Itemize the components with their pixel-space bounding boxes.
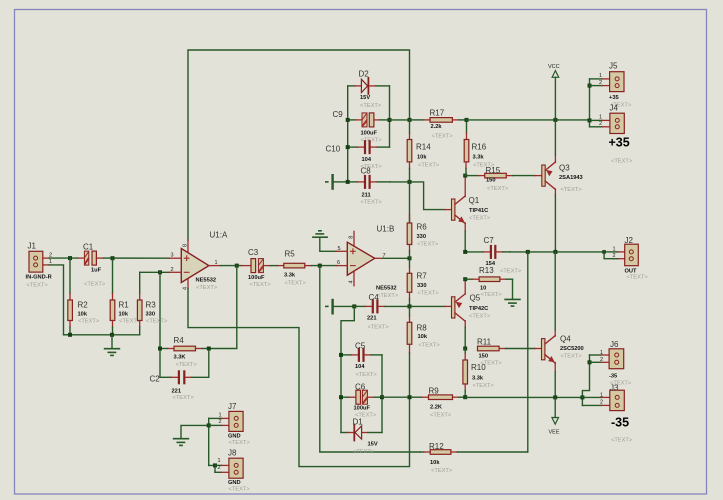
resistor R10 <box>463 349 494 398</box>
svg-text:15V: 15V <box>368 442 378 448</box>
wire C6 row to R9 node <box>382 396 410 398</box>
node junction C9 left <box>346 118 350 122</box>
ground terminal at C8 row <box>326 175 348 188</box>
svg-text:Q1: Q1 <box>469 196 480 205</box>
svg-text:J4: J4 <box>610 104 619 113</box>
svg-text:C2: C2 <box>150 375 161 384</box>
node junction top rail / R17 <box>408 118 412 122</box>
power terminal VCC <box>548 64 560 120</box>
resistor R8 <box>407 306 440 397</box>
svg-text:R4: R4 <box>174 336 185 345</box>
svg-text:<TEXT>: <TEXT> <box>84 282 106 288</box>
connector J4 <box>590 104 633 165</box>
wire J7 feed vertical <box>208 418 210 465</box>
resistor R6 <box>407 214 439 258</box>
connector J8 <box>215 449 250 493</box>
svg-text:2: 2 <box>599 80 602 86</box>
svg-text:-35: -35 <box>609 374 617 380</box>
svg-text:10k: 10k <box>418 334 428 340</box>
svg-text:<TEXT>: <TEXT> <box>173 395 195 401</box>
wire J1 pin2 to C1 <box>49 257 78 259</box>
svg-text:R7: R7 <box>417 272 428 281</box>
capacitor C6 <box>341 383 382 419</box>
svg-text:<TEXT>: <TEXT> <box>377 293 399 299</box>
svg-text:<TEXT>: <TEXT> <box>418 291 440 297</box>
svg-text:<TEXT>: <TEXT> <box>611 438 633 444</box>
svg-text:<TEXT>: <TEXT> <box>361 200 383 206</box>
ground terminal at C4 row <box>326 300 355 313</box>
capacitor C4 <box>354 293 409 331</box>
wire C5/C6/D1 right rail <box>381 355 383 433</box>
svg-text:+35: +35 <box>609 136 630 150</box>
svg-text:<TEXT>: <TEXT> <box>78 318 100 324</box>
svg-text:<TEXT>: <TEXT> <box>469 216 491 222</box>
svg-text:R17: R17 <box>430 109 445 118</box>
node junction C6 left <box>339 395 343 399</box>
capacitor C2 <box>150 351 209 402</box>
svg-text:<TEXT>: <TEXT> <box>473 383 495 389</box>
svg-text:<TEXT>: <TEXT> <box>611 159 633 165</box>
svg-text:2: 2 <box>171 267 174 273</box>
svg-text:2: 2 <box>219 419 222 425</box>
svg-text:J6: J6 <box>610 340 619 349</box>
wire output feedback down to R4 right <box>209 266 237 349</box>
node junction J7 pin2 <box>207 423 211 427</box>
capacitor C10 <box>326 140 390 170</box>
wire D2 left rail down to C8 row <box>347 86 349 182</box>
ground under R13 <box>505 299 520 306</box>
wire D2 right rail down to C10 row <box>389 86 391 147</box>
svg-text:221: 221 <box>367 316 377 322</box>
svg-text:10k: 10k <box>417 155 427 161</box>
svg-text:<TEXT>: <TEXT> <box>469 314 491 320</box>
wire R9 row to Q4 emitter and J3 <box>465 396 582 398</box>
svg-text:1: 1 <box>600 350 603 356</box>
svg-text:-35: -35 <box>611 416 629 430</box>
node junction Q5 collector / R10 / R11 <box>463 347 467 351</box>
resistor R9 <box>410 387 466 419</box>
resistor R4 <box>160 336 209 368</box>
node junction R14 bottom / C8 wire <box>408 180 412 184</box>
node junction R9/C6 column <box>408 395 412 399</box>
svg-text:330: 330 <box>417 283 427 289</box>
svg-text:211: 211 <box>362 193 371 199</box>
svg-text:C7: C7 <box>484 236 495 245</box>
svg-text:3.3k: 3.3k <box>472 376 484 382</box>
svg-text:<TEXT>: <TEXT> <box>432 134 454 140</box>
svg-text:<TEXT>: <TEXT> <box>419 343 441 349</box>
svg-text:J2: J2 <box>625 236 634 245</box>
svg-text:<TEXT>: <TEXT> <box>176 362 198 368</box>
wire R14 node down to R6 <box>409 182 411 223</box>
svg-text:4: 4 <box>349 280 355 283</box>
svg-text:GND: GND <box>228 434 241 440</box>
svg-text:+35: +35 <box>609 95 619 101</box>
node junction C6 right <box>380 395 384 399</box>
svg-text:<TEXT>: <TEXT> <box>487 186 509 192</box>
capacitor C9 <box>333 110 390 144</box>
wire feedback node down to R4/C2 <box>159 272 161 377</box>
node junction R4 right <box>207 347 211 351</box>
node junction J6 pin2 <box>588 360 592 364</box>
node junction R4 left <box>158 347 162 351</box>
diode D1 <box>341 418 382 456</box>
svg-text:<TEXT>: <TEXT> <box>417 242 439 248</box>
capacitor C3 <box>241 248 283 288</box>
svg-text:2.2K: 2.2K <box>430 405 443 411</box>
node junction top rail / R16 <box>465 118 469 122</box>
resistor R7 <box>407 258 439 306</box>
svg-text:C8: C8 <box>361 167 372 176</box>
svg-text:C1: C1 <box>83 243 94 252</box>
wire C7 to output column <box>510 251 604 253</box>
connector J3 <box>582 384 632 444</box>
wire R12 column vertical <box>527 252 529 452</box>
svg-text:<TEXT>: <TEXT> <box>360 103 382 109</box>
svg-text:3.3k: 3.3k <box>473 155 485 161</box>
svg-text:2: 2 <box>613 253 616 259</box>
wire C9 right to R17 node <box>390 119 410 121</box>
svg-text:R16: R16 <box>472 143 487 152</box>
svg-text:8: 8 <box>349 236 355 239</box>
node junction C4 left / V- branch <box>352 304 356 308</box>
svg-text:R3: R3 <box>146 301 157 310</box>
svg-text:R6: R6 <box>417 223 428 232</box>
wire J7-J8 jog <box>209 465 215 472</box>
resistor R1 <box>110 294 141 335</box>
capacitor C8 <box>348 167 390 206</box>
resistor R11 <box>477 338 542 367</box>
node junction J5 pins <box>588 84 592 88</box>
svg-text:10: 10 <box>480 286 486 292</box>
svg-text:8: 8 <box>183 244 189 247</box>
svg-text:<TEXT>: <TEXT> <box>196 285 218 291</box>
node junction VCC rail <box>553 118 557 122</box>
svg-text:1: 1 <box>600 393 603 399</box>
connector J7 <box>209 402 251 446</box>
wire C4 node to Q5 base <box>410 305 445 307</box>
svg-text:TIP42C: TIP42C <box>469 306 488 312</box>
svg-text:<TEXT>: <TEXT> <box>250 282 272 288</box>
svg-text:<TEXT>: <TEXT> <box>561 354 583 360</box>
svg-text:1: 1 <box>218 458 221 464</box>
svg-text:<TEXT>: <TEXT> <box>561 187 583 193</box>
svg-text:R13: R13 <box>479 266 494 275</box>
svg-text:100uF: 100uF <box>248 275 265 281</box>
ground at J7 <box>174 439 189 446</box>
svg-text:U1:A: U1:A <box>210 231 228 240</box>
svg-text:Q4: Q4 <box>560 335 571 344</box>
svg-text:1uF: 1uF <box>91 268 102 274</box>
svg-text:2: 2 <box>600 399 603 405</box>
svg-text:<TEXT>: <TEXT> <box>229 440 251 446</box>
svg-text:C9: C9 <box>333 110 344 119</box>
svg-text:D2: D2 <box>359 70 370 79</box>
svg-text:C5: C5 <box>355 342 366 351</box>
wire J2 feed <box>604 252 613 259</box>
resistor R2 <box>68 258 100 335</box>
wire U1:A output to C3 <box>221 265 242 267</box>
svg-text:Q5: Q5 <box>470 294 481 303</box>
svg-text:<TEXT>: <TEXT> <box>627 275 649 281</box>
node junction J4 pin1 / rail <box>588 118 592 122</box>
svg-text:104: 104 <box>362 157 372 163</box>
wire J5/J4 feed vertical <box>589 79 591 127</box>
wire U1:A pin4 to V- net <box>188 289 410 467</box>
svg-text:1: 1 <box>215 260 218 266</box>
svg-text:2SC5200: 2SC5200 <box>560 346 584 352</box>
svg-text:1: 1 <box>49 259 52 265</box>
resistor R15 <box>465 166 542 192</box>
wire J6 feed <box>582 355 589 405</box>
svg-text:<TEXT>: <TEXT> <box>27 283 49 289</box>
node junction pin2/feedback <box>158 270 162 274</box>
wire R1 top lead from pin3 row <box>112 258 114 293</box>
svg-text:221: 221 <box>172 389 182 395</box>
svg-text:<TEXT>: <TEXT> <box>500 269 522 275</box>
svg-text:1: 1 <box>599 73 602 79</box>
svg-text:J5: J5 <box>609 62 618 71</box>
transistor Q4 <box>542 252 584 398</box>
wire V- branch down to C5/C6/D1 rail <box>341 306 354 432</box>
svg-text:10k: 10k <box>430 460 440 466</box>
svg-text:IN-GND-R: IN-GND-R <box>26 275 52 281</box>
node junction J3 pin1 / rail <box>580 395 584 399</box>
node junction C1/R1 <box>111 256 115 260</box>
svg-text:<TEXT>: <TEXT> <box>356 372 378 378</box>
svg-text:<TEXT>: <TEXT> <box>368 325 390 331</box>
svg-text:J3: J3 <box>610 384 619 393</box>
node junction C7/R12 column <box>526 250 530 254</box>
svg-text:1: 1 <box>599 115 602 121</box>
capacitor C7 <box>465 236 510 267</box>
svg-text:R8: R8 <box>417 324 428 333</box>
connector J5 <box>590 62 632 109</box>
resistor R13 <box>465 266 522 299</box>
svg-text:2: 2 <box>600 357 603 363</box>
resistor R14 <box>407 120 440 182</box>
node junction Q1 collector / R16 / R15 <box>463 174 467 178</box>
node junction R1/rail <box>110 333 114 337</box>
power terminal VEE <box>549 397 560 435</box>
resistor R3 <box>137 294 167 335</box>
svg-text:R2: R2 <box>78 301 89 310</box>
svg-text:J1: J1 <box>28 242 37 251</box>
wire ground rail under R1/R2/R3 <box>64 334 140 336</box>
svg-text:<TEXT>: <TEXT> <box>146 318 168 324</box>
node junction output/feedback <box>235 264 239 268</box>
svg-text:<TEXT>: <TEXT> <box>430 413 452 419</box>
svg-text:150: 150 <box>486 178 496 184</box>
svg-text:U1:B: U1:B <box>377 225 395 234</box>
svg-text:3: 3 <box>171 253 174 259</box>
wire top rail R17 to J4 <box>467 119 590 121</box>
svg-text:C10: C10 <box>326 145 341 154</box>
node junction output column Q3/Q4 <box>553 250 557 254</box>
svg-text:GND: GND <box>228 480 241 486</box>
connector J6 <box>590 340 632 387</box>
node junction pin6/R12 <box>318 264 322 268</box>
svg-text:330: 330 <box>146 311 156 317</box>
node junction R2/rail <box>68 333 72 337</box>
svg-text:C6: C6 <box>355 383 366 392</box>
node junction R13 row <box>463 277 467 281</box>
svg-text:D1: D1 <box>353 418 364 427</box>
svg-text:100uF: 100uF <box>354 406 371 412</box>
resistor R12 <box>420 442 527 474</box>
svg-text:10k: 10k <box>78 311 88 317</box>
node junction C4/R7/R8/Q5 base <box>408 304 412 308</box>
svg-text:<TEXT>: <TEXT> <box>285 281 307 287</box>
ground terminal above U1:B pin5 (inverted) <box>313 231 327 237</box>
transistor Q5 <box>445 279 491 348</box>
diode D2 <box>348 70 390 110</box>
resistor R17 <box>410 109 467 140</box>
op-amp U1:B <box>337 225 399 300</box>
wire top rail from U1:A pin8 to D2 block column <box>188 50 410 240</box>
node junction C9 right <box>388 118 392 122</box>
svg-text:10k: 10k <box>119 311 129 317</box>
connector J1 <box>26 242 53 289</box>
wire C1 to U1:A pin3 <box>104 257 170 259</box>
wire U1:A pin2 row <box>140 271 170 273</box>
transistor Q3 <box>542 120 583 252</box>
svg-text:J8: J8 <box>228 449 237 458</box>
node junction J1/R2 <box>68 256 72 260</box>
ground under R1 <box>105 349 120 356</box>
wire U1:B pin5 to ground terminal <box>320 238 337 252</box>
wire U1:B output to R6/R7 column <box>383 257 410 259</box>
svg-text:NE5532: NE5532 <box>196 277 217 283</box>
svg-text:15V: 15V <box>360 95 370 101</box>
capacitor C1 <box>78 243 106 288</box>
svg-text:J7: J7 <box>228 402 237 411</box>
svg-text:3.3k: 3.3k <box>284 273 296 279</box>
wire pin6 node down to R12 row <box>320 266 421 452</box>
svg-text:R1: R1 <box>119 301 130 310</box>
node junction output U1:B <box>408 256 412 260</box>
node junction Q4 emitter / VEE <box>553 395 557 399</box>
svg-text:C3: C3 <box>248 248 259 257</box>
svg-text:<TEXT>: <TEXT> <box>418 163 440 169</box>
svg-text:<TEXT>: <TEXT> <box>481 361 503 367</box>
wire R3 top lead <box>139 272 141 293</box>
wire J1 pin1 down to ground rail <box>49 265 70 335</box>
svg-text:3.3K: 3.3K <box>174 355 187 361</box>
svg-text:<TEXT>: <TEXT> <box>481 292 503 298</box>
node junction C5 left <box>339 353 343 357</box>
svg-text:R5: R5 <box>285 250 296 259</box>
node junction J2 pin1 <box>602 250 606 254</box>
svg-text:R9: R9 <box>429 387 440 396</box>
node junction C10 left <box>346 145 350 149</box>
svg-text:R14: R14 <box>416 143 431 152</box>
svg-text:1: 1 <box>613 246 616 252</box>
svg-text:<TEXT>: <TEXT> <box>361 138 383 144</box>
svg-text:R11: R11 <box>477 338 492 347</box>
svg-text:150: 150 <box>479 354 489 360</box>
svg-text:NE5532: NE5532 <box>376 286 397 292</box>
wire R1 rail to ground <box>111 335 113 349</box>
svg-text:R12: R12 <box>429 442 444 451</box>
resistor R16 <box>464 120 495 176</box>
svg-text:104: 104 <box>355 364 365 370</box>
op-amp U1:A <box>169 231 228 292</box>
wire J7 ground branch <box>181 425 209 438</box>
svg-text:5: 5 <box>338 246 341 252</box>
svg-text:<TEXT>: <TEXT> <box>431 468 453 474</box>
svg-text:VEE: VEE <box>549 430 560 436</box>
connector J2 <box>604 236 648 281</box>
resistor R5 <box>284 250 312 287</box>
svg-text:2.2k: 2.2k <box>431 124 443 130</box>
svg-text:<TEXT>: <TEXT> <box>353 449 375 455</box>
wire R5 to U1:B pin6 <box>311 265 337 267</box>
svg-text:Q3: Q3 <box>559 164 570 173</box>
svg-text:100uF: 100uF <box>361 131 378 137</box>
node junction Q1 emitter / C7 <box>463 250 467 254</box>
node junction C8 left <box>346 180 350 184</box>
capacitor C5 <box>341 342 382 379</box>
svg-text:<TEXT>: <TEXT> <box>229 487 251 493</box>
svg-text:1: 1 <box>219 412 222 418</box>
svg-text:2: 2 <box>599 121 602 127</box>
wire C8 to Q1 base <box>390 182 445 210</box>
svg-text:R15: R15 <box>486 166 501 175</box>
node junction R9/R10 <box>463 395 467 399</box>
svg-text:2SA1943: 2SA1943 <box>559 175 583 181</box>
svg-text:2: 2 <box>218 465 221 471</box>
svg-text:TIP41C: TIP41C <box>469 208 488 214</box>
svg-text:6: 6 <box>337 260 340 266</box>
node junction J8 pin1 <box>213 463 217 467</box>
transistor Q1 <box>445 176 491 252</box>
svg-text:C4: C4 <box>369 293 380 302</box>
svg-text:VCC: VCC <box>548 64 560 70</box>
svg-text:330: 330 <box>417 234 427 240</box>
